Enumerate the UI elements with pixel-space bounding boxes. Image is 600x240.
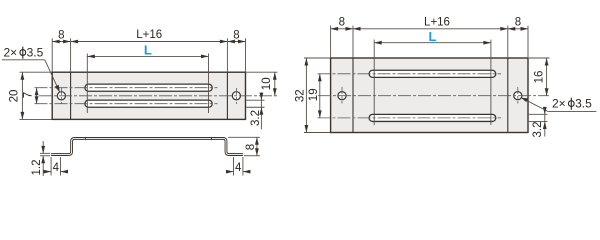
svg-text:3.2: 3.2: [532, 122, 544, 138]
svg-text:2×: 2×: [4, 45, 18, 59]
svg-text:16: 16: [534, 71, 546, 84]
svg-text:3.5: 3.5: [27, 45, 44, 59]
dimension line 8 / L+16 / 8 (right view): [331, 28, 529, 30]
horizontal centerline through holes (right view): [318, 95, 549, 97]
dimension 16 (right view): [529, 58, 550, 96]
dimension 4 right (hat view): [226, 157, 251, 176]
vertical centerline hole left (right view): [341, 87, 343, 104]
svg-text:L: L: [429, 29, 437, 44]
svg-text:8: 8: [58, 29, 64, 41]
dimension 3.2 (right view): [529, 107, 548, 137]
extension lines top (left view): [52, 38, 245, 72]
slot lower (left view): [85, 100, 212, 107]
svg-text:3.2: 3.2: [250, 110, 262, 126]
slot upper (right view): [369, 70, 496, 77]
svg-text:19: 19: [308, 88, 320, 101]
slot lower (right view): [369, 114, 496, 121]
plate body (right view): [331, 58, 528, 133]
hole left (right view): [338, 92, 346, 100]
svg-text:8: 8: [515, 17, 521, 29]
svg-text:7: 7: [23, 92, 35, 98]
vertical centerline hole right (right view): [517, 87, 519, 104]
dimension 4 left (hat view): [44, 157, 69, 176]
leader 2xphi3.5 (left view): [2, 60, 60, 92]
hat profile outline: [51, 138, 243, 154]
vertical centerline hole right (left view): [235, 88, 237, 104]
dimension line L (right view): [374, 42, 491, 44]
extension lines top (right view): [331, 26, 528, 58]
svg-text:32: 32: [294, 89, 306, 102]
dimension 19 (right view): [319, 74, 321, 118]
plate body (left view): [52, 72, 245, 119]
slot upper (left view): [85, 84, 212, 91]
svg-text:4: 4: [235, 162, 242, 174]
svg-text:8: 8: [245, 144, 257, 150]
dimension line L (left view): [87, 55, 208, 57]
extension lines for L (left view): [86, 54, 88, 114]
hole left (left view): [57, 92, 65, 100]
dimension 1.2 (hat view): [40, 141, 50, 176]
slot end tick left (hat view): [84, 137, 86, 140]
slot end tick right (hat view): [211, 137, 213, 140]
svg-text:20: 20: [8, 90, 20, 103]
dimension 20 (left view): [20, 72, 52, 119]
svg-text:8: 8: [233, 29, 239, 41]
svg-text:L: L: [144, 42, 152, 57]
centerline lower slot (left view): [35, 103, 218, 105]
bend line right (left view): [226, 72, 228, 119]
bend line right (right view): [507, 58, 509, 133]
svg-text:L+16: L+16: [424, 17, 450, 29]
svg-text:4: 4: [53, 162, 60, 174]
centerline lower slot (right view): [318, 117, 502, 119]
arrows top dims (left view): [52, 40, 245, 44]
svg-text:3.5: 3.5: [575, 97, 592, 111]
bend line left (right view): [352, 58, 354, 133]
svg-text:10: 10: [261, 77, 273, 90]
svg-text:1.2: 1.2: [31, 160, 43, 176]
bend line left (left view): [70, 72, 72, 119]
arrows top dims (right view): [331, 27, 528, 31]
hole right (right view): [514, 92, 522, 100]
dimension 3.2 (left view): [246, 92, 264, 129]
dimension 32 (right view): [304, 58, 330, 133]
leader 2xphi3.5 (right view): [521, 98, 596, 112]
dimension 7 (left view): [36, 88, 38, 104]
dimension line 8 / L+16 / 8 (left view): [52, 41, 246, 43]
svg-text:2×: 2×: [552, 97, 566, 111]
dimension 8 (hat view): [228, 137, 260, 155]
vertical centerline hole left (left view): [60, 88, 62, 104]
svg-text:L+16: L+16: [136, 29, 162, 41]
dimension 10 (left view): [246, 72, 277, 96]
centerline upper slot (right view): [318, 73, 502, 75]
extension lines for L (right view): [373, 40, 375, 125]
horizontal centerline through holes (left view): [39, 95, 278, 97]
hole right (left view): [232, 92, 240, 100]
centerline upper slot (left view): [35, 87, 218, 89]
svg-text:8: 8: [339, 17, 345, 29]
